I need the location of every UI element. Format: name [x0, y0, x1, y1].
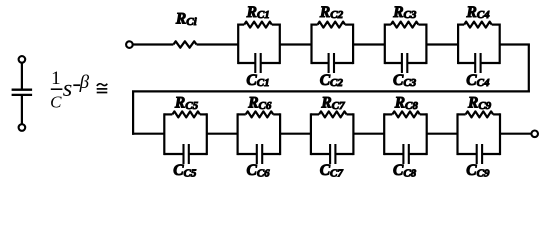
parallel RC block R_C4/C_C4 — [458, 22, 500, 73]
parallel RC block R_C7/C_C7 — [311, 111, 354, 164]
parallel RC block R_C2/C_C2 — [312, 22, 354, 73]
wire — [207, 133, 238, 135]
svg-text:β: β — [79, 72, 90, 93]
output terminal — [531, 131, 538, 138]
terminal bottom-left — [19, 124, 26, 131]
input terminal — [126, 41, 133, 48]
wire — [427, 133, 458, 135]
superscript minus — [73, 84, 80, 86]
wire — [353, 43, 385, 45]
right down-leg — [528, 45, 530, 93]
svg-text:C: C — [50, 92, 62, 111]
wire — [21, 63, 23, 89]
wire — [21, 96, 23, 124]
wire — [280, 133, 311, 135]
wire — [197, 43, 239, 45]
wire — [353, 133, 384, 135]
parallel RC block R_C6/C_C6 — [238, 111, 281, 164]
svg-text:1: 1 — [51, 68, 61, 89]
congruent symbol — [97, 84, 108, 93]
svg-text:s: s — [63, 75, 73, 102]
wire to output — [500, 133, 531, 135]
parallel RC block R_C8/C_C8 — [384, 111, 427, 164]
capacitor C (ideal fractional-order element) — [12, 90, 32, 95]
parallel RC block R_C9/C_C9 — [458, 111, 501, 164]
wire — [280, 43, 312, 45]
wire — [132, 133, 164, 135]
wire top row to right leg — [500, 43, 530, 45]
parallel RC block R_C5/C_C5 — [164, 111, 207, 164]
parallel RC block R_C3/C_C3 — [385, 22, 427, 73]
fraction bar — [51, 88, 63, 90]
resistor RCi — [173, 41, 196, 47]
wire — [133, 43, 174, 45]
parallel RC block R_C1/C_C1 — [238, 22, 280, 73]
wire — [426, 43, 458, 45]
terminal top-left — [19, 56, 26, 63]
return wire — [132, 90, 530, 92]
formula (1/C)s^-beta — [50, 68, 89, 111]
left down-leg — [132, 91, 134, 134]
